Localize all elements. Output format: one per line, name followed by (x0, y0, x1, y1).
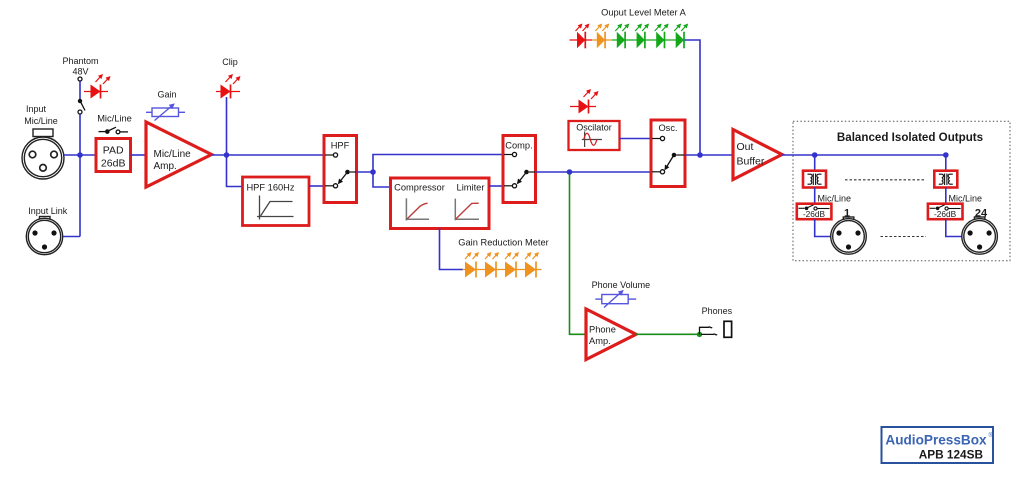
wire transformer to pad 24 (945, 188, 947, 204)
wire osc out (685, 154, 733, 156)
dashed continuation XLRs (881, 236, 927, 238)
LED D2 clip indicator (216, 75, 240, 99)
node buffer input junction (697, 152, 703, 158)
svg-text:48V: 48V (72, 67, 88, 77)
svg-text:AudioPressBox: AudioPressBox (885, 433, 987, 448)
block HPF 160Hz (243, 177, 310, 226)
svg-text:Limiter: Limiter (457, 183, 485, 193)
svg-text:Phones: Phones (702, 306, 733, 316)
block -26dB pad switch 1 (797, 204, 832, 220)
wire to gain reduction meter (440, 229, 464, 270)
XLR connector J2 Input Link (26, 217, 62, 255)
switch SW mic/line (99, 127, 129, 134)
svg-text:Mic/Line: Mic/Line (154, 149, 192, 160)
potentiometer R phone volume (595, 291, 636, 308)
wire HPF out (357, 171, 374, 173)
svg-text:Clip: Clip (222, 57, 238, 67)
svg-text:Gain Reduction Meter: Gain Reduction Meter (458, 237, 548, 247)
block Osc bypass switch (651, 120, 685, 187)
LED meter output level (6 LEDs) (570, 39, 593, 41)
wire compressor bypass (373, 155, 503, 173)
LED meter gain reduction (4 orange LEDs) (463, 269, 542, 271)
wire buffer out bus (782, 154, 946, 156)
svg-text:APB 124SB: APB 124SB (919, 448, 983, 462)
op-amp U1 Mic/Line Amp (146, 122, 212, 187)
node output bus junction 1 (812, 152, 818, 158)
node phones junction (697, 332, 702, 337)
logo AudioPressBox APB 124SB (882, 427, 994, 463)
svg-text:Mic/Line: Mic/Line (97, 114, 132, 124)
wire comp out (536, 171, 652, 173)
node amp output junction (224, 152, 230, 158)
wire meter to buffer junction (685, 40, 701, 155)
wire branch to HPF filter (227, 155, 243, 187)
phones jack J3 (700, 321, 732, 337)
svg-text:HPF: HPF (331, 141, 350, 151)
svg-text:HPF 160Hz: HPF 160Hz (246, 182, 294, 192)
node comp output junction (567, 169, 573, 175)
svg-text:Oscilator: Oscilator (576, 123, 612, 133)
wire phone amp out (636, 333, 697, 335)
XLR connector output 1 (831, 217, 867, 254)
wire into compressor (373, 172, 391, 187)
node output bus junction 24 (943, 152, 949, 158)
svg-text:Comp.: Comp. (505, 141, 532, 151)
svg-text:Mic/Line: Mic/Line (818, 194, 852, 204)
wire input link (63, 236, 80, 238)
switch SW phantom (78, 77, 85, 114)
op-amp U3 Phone Amp (586, 309, 636, 360)
XLR connector J1 Input Mic/Line (22, 129, 64, 179)
wire green branch to phone amp (570, 174, 587, 334)
XLR connector output 24 (962, 217, 998, 254)
svg-text:26dB: 26dB (101, 158, 126, 170)
svg-text:Amp.: Amp. (589, 336, 611, 346)
transformer T1 (803, 171, 826, 188)
wire compressor out (489, 185, 503, 187)
svg-text:-26dB: -26dB (803, 209, 826, 219)
dashed box Balanced Isolated Outputs (793, 121, 1010, 260)
svg-text:-26dB: -26dB (934, 209, 957, 219)
svg-text:Phone Volume: Phone Volume (592, 280, 651, 290)
block Comp bypass switch (503, 136, 536, 203)
wire phantom branch down to input link (79, 114, 81, 236)
svg-text:Amp.: Amp. (154, 161, 177, 172)
block Compressor / Limiter (391, 178, 490, 229)
wire to transformer T1 (814, 155, 816, 171)
wire input to PAD (64, 154, 96, 156)
block -26dB pad switch 24 (928, 204, 963, 220)
svg-text:Out: Out (737, 141, 754, 153)
wire amp out to HPF switch (212, 154, 325, 156)
block HPF bypass switch (324, 136, 357, 203)
dashed continuation transformers (845, 179, 924, 181)
LED D1 phantom indicator (84, 75, 110, 99)
wire PAD to amp (131, 154, 147, 156)
svg-text:Balanced Isolated Outputs: Balanced Isolated Outputs (837, 131, 983, 144)
wire oscillator out (620, 138, 652, 140)
LED D3 oscillator indicator (570, 90, 598, 114)
svg-text:Ouput Level Meter A: Ouput Level Meter A (601, 7, 687, 17)
svg-text:Mic/Line: Mic/Line (24, 116, 58, 126)
svg-text:®: ® (989, 432, 994, 439)
svg-text:Phone: Phone (589, 325, 616, 335)
svg-text:Mic/Line: Mic/Line (949, 194, 983, 204)
transformer T24 (934, 171, 957, 188)
svg-text:Osc.: Osc. (658, 123, 677, 133)
wire clip branch (226, 97, 228, 155)
wire to transformer T24 (945, 155, 947, 171)
svg-text:Buffer: Buffer (737, 156, 765, 168)
node input junction (77, 152, 83, 158)
svg-text:Input Link: Input Link (28, 206, 68, 216)
svg-text:Gain: Gain (157, 90, 176, 100)
svg-text:Compressor: Compressor (394, 183, 445, 193)
block PAD 26dB (96, 139, 131, 172)
svg-text:Phantom: Phantom (62, 56, 98, 66)
potentiometer R gain (146, 105, 185, 121)
wire pad to XLR 24 (946, 219, 962, 236)
wire transformer to pad 1 (814, 188, 816, 204)
svg-text:PAD: PAD (103, 145, 124, 157)
wire HPF filter out (309, 185, 324, 187)
wire pad to XLR 1 (815, 219, 831, 236)
svg-text:Input: Input (26, 104, 47, 114)
op-amp U2 Out Buffer (733, 130, 782, 180)
node HPF output junction (370, 169, 376, 175)
block Oscillator (569, 121, 620, 150)
